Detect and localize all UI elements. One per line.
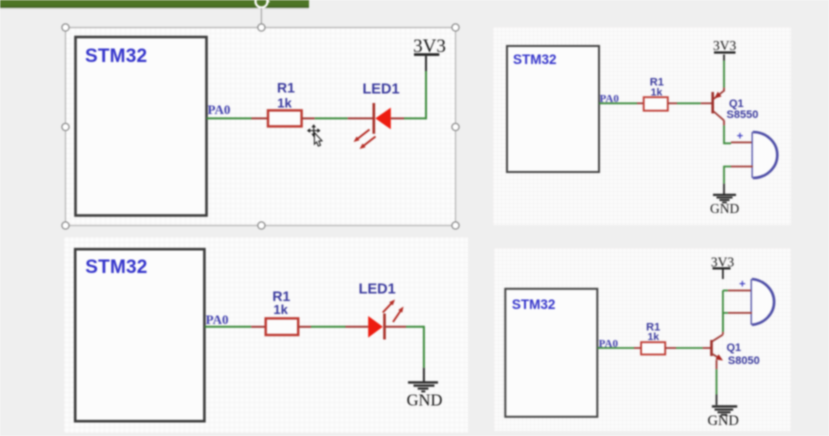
label Q1 — [729, 98, 744, 110]
value S8050 — [728, 355, 760, 367]
wire PA0 to R1 — [597, 347, 641, 349]
wire R1 to Q1 base — [665, 347, 711, 349]
transistor Q1 S8050 NPN — [712, 335, 724, 361]
label STM32 — [85, 257, 147, 278]
resistor R1 — [268, 110, 302, 126]
handle bottom-right — [452, 222, 459, 229]
net label 3V3 — [711, 255, 734, 270]
ground GND — [408, 382, 438, 391]
pin label PA0 — [599, 338, 619, 350]
power symbol 3V3 — [713, 268, 731, 279]
handle left-middle — [62, 123, 69, 130]
wire R1 to Q1 base — [668, 102, 712, 104]
net label GND — [707, 413, 738, 429]
resistor R1 — [641, 342, 665, 354]
MCU U1 STM32 box — [75, 249, 204, 421]
value 1k — [651, 86, 663, 98]
pin label PA0 — [600, 93, 620, 105]
wire PA0 to R1 — [205, 326, 266, 328]
value 1k — [277, 96, 292, 111]
MCU U1 STM32 box — [507, 46, 599, 172]
handle top-right — [452, 24, 459, 31]
pin label PA0 — [208, 102, 231, 117]
panel 3 canvas (bottom-left schematic) — [64, 237, 468, 433]
buzzer LS1 — [752, 279, 774, 325]
wire emitter to GND — [716, 360, 718, 405]
wire 3V3 to buzzer top pin — [723, 290, 752, 292]
wire 3V3 to emitter — [723, 55, 725, 92]
value 1k — [273, 302, 288, 317]
handle bottom-left — [62, 222, 69, 229]
MCU U1 STM32 box — [505, 289, 597, 417]
transistor Q1 S8550 PNP — [713, 91, 724, 121]
wire R1 to LED1 — [298, 326, 368, 328]
value 1k — [647, 331, 659, 343]
mouse move cursor — [307, 124, 322, 146]
wire collector to buzzer — [722, 291, 724, 335]
handle bottom-middle — [258, 222, 265, 229]
polarity plus — [739, 279, 745, 291]
selection frame — [66, 28, 456, 226]
label Q1 — [727, 342, 742, 354]
panel 4 canvas (bottom-right schematic) — [494, 248, 791, 431]
wire buzzer bottom pin to collector — [723, 313, 752, 332]
handle right-middle — [452, 123, 459, 130]
MCU U1 STM32 box — [76, 37, 207, 216]
resistor R1 — [644, 97, 668, 111]
power symbol 3V3 — [414, 53, 439, 56]
value S8550 — [727, 109, 759, 121]
polarity plus — [737, 130, 743, 142]
label R1 — [272, 288, 290, 304]
wire collector to buzzer — [724, 120, 753, 143]
pin label PA0 — [206, 312, 229, 327]
buzzer LS1 — [753, 132, 778, 178]
net label 3V3 — [413, 36, 446, 57]
net label 3V3 — [713, 38, 736, 53]
net label GND — [407, 391, 443, 410]
label STM32 — [85, 46, 147, 67]
panel 2 canvas (top-right schematic) — [493, 27, 791, 225]
wire LED1 to GND — [406, 326, 424, 382]
wire PA0 to R1 — [207, 117, 269, 119]
label LED1 — [362, 82, 399, 98]
label R1 — [277, 80, 295, 96]
label STM32 — [513, 52, 557, 67]
LED emission arrows — [383, 300, 404, 323]
label R1 — [646, 321, 660, 333]
power symbol 3V3 — [714, 51, 736, 53]
label LED1 — [359, 281, 396, 297]
LED emission arrows — [354, 130, 376, 150]
net label GND — [710, 201, 739, 216]
wire LED1 to 3V3 — [404, 56, 426, 119]
label R1 — [650, 76, 664, 88]
wire R1 to LED1 — [302, 117, 374, 119]
rotate handle — [256, 0, 271, 25]
ground GND — [713, 195, 736, 203]
label STM32 — [512, 297, 556, 312]
wire PA0 to R1 — [599, 102, 644, 104]
toolbar remnant green bar — [0, 0, 309, 9]
panel 1 canvas (top-left schematic, selected) — [65, 28, 456, 226]
resistor R1 — [266, 318, 299, 335]
LED LED1 (cathode left) — [374, 103, 404, 134]
ground GND — [712, 406, 737, 414]
wire buzzer to GND — [724, 167, 753, 195]
handle top-middle — [258, 24, 265, 31]
LED LED1 (anode left) — [368, 314, 406, 340]
handle top-left — [62, 24, 69, 31]
